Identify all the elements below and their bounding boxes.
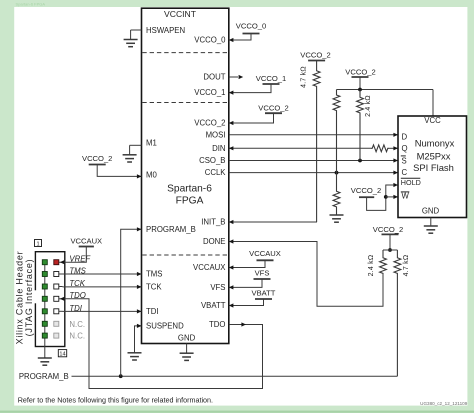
- svg-text:4.7 kΩ: 4.7 kΩ: [403, 255, 410, 277]
- wire CCLK to flash C: [229, 172, 398, 174]
- power VCCO_2 INIT_B label: [300, 51, 330, 60]
- resistor R CCLK upper termination: [333, 90, 340, 173]
- svg-text:VCCO_2: VCCO_2: [373, 225, 403, 234]
- FPGA pin label VCCO_0: [194, 36, 226, 45]
- svg-text:VFS: VFS: [210, 283, 225, 292]
- svg-text:VCCAUX: VCCAUX: [249, 249, 281, 258]
- power VBATT label: [252, 289, 276, 298]
- resistor R 4.7k INIT_B pullup: [313, 61, 320, 223]
- JTAG ground pin 11: [42, 321, 47, 326]
- junction W tie: [384, 195, 388, 199]
- JTAG TCK pin: [54, 284, 63, 289]
- label VREF: [69, 255, 91, 264]
- wire TDO return to header: [63, 299, 263, 389]
- arrow into VCCAUX: [229, 265, 234, 269]
- svg-text:GND: GND: [422, 207, 440, 216]
- power VCCO_0 label: [236, 22, 266, 31]
- svg-text:S: S: [402, 156, 407, 165]
- svg-text:Spartan-6: Spartan-6: [167, 184, 212, 195]
- label 2.4 kOhm DONE: [368, 255, 375, 277]
- power VCCAUX at header label: [70, 237, 102, 246]
- FPGA pin label CSO_B: [199, 156, 225, 165]
- svg-text:VFS: VFS: [255, 269, 270, 278]
- FPGA pin label TCK: [146, 283, 162, 292]
- svg-text:CSO_B: CSO_B: [199, 156, 225, 165]
- wire VREF to VCCAUX: [59, 247, 87, 263]
- power VCCO_0 bar: [243, 33, 260, 35]
- power VCCAUX at header bar: [79, 246, 94, 248]
- svg-text:VCCO_0: VCCO_0: [236, 22, 266, 31]
- FPGA pin label DOUT: [203, 73, 225, 82]
- svg-text:VCCINT: VCCINT: [164, 9, 197, 19]
- power VCCO_2 at M0 label: [82, 154, 112, 163]
- flash label GND: [422, 207, 440, 216]
- junction on PROGRAM_B: [119, 374, 123, 378]
- resistor R 2.4k CSO_B pullup: [357, 90, 364, 161]
- power VCCO_2 DONE bar: [382, 233, 399, 235]
- power VFS bar: [254, 278, 271, 280]
- label 4.7 kOhm INIT_B: [301, 66, 308, 88]
- resistor R CCLK lower termination: [333, 173, 340, 215]
- label TCK: [69, 279, 85, 288]
- power VCCO_2 HOLD bar: [359, 196, 374, 198]
- svg-text:VCCO_2: VCCO_2: [300, 51, 330, 60]
- svg-text:Numonyx: Numonyx: [415, 138, 455, 149]
- FPGA pin label MOSI: [206, 130, 226, 139]
- FPGA pin label VBATT: [201, 301, 226, 310]
- figure id UG380_c2_12_121109: [420, 401, 468, 406]
- svg-text:VCCO_0: VCCO_0: [194, 36, 226, 45]
- FPGA pin label TDO: [209, 320, 225, 329]
- wire HSWAPEN: [131, 29, 142, 31]
- wire to W pin: [386, 196, 398, 198]
- flash pin label HOLD with overline: [401, 178, 421, 187]
- JTAG ground bus wire: [44, 262, 46, 358]
- arrow into VBATT: [229, 303, 234, 307]
- arrow out of DOUT: [239, 75, 244, 79]
- ground below JTAG header: [38, 357, 52, 365]
- wire VCCO_1: [229, 84, 271, 93]
- FPGA name Spartan-6: [167, 184, 212, 195]
- wire pullup rail arms: [383, 249, 397, 251]
- JTAG pin14 number box: [58, 350, 66, 358]
- wire VCCAUX pin: [229, 260, 265, 267]
- FPGA pin label DONE: [203, 237, 226, 246]
- JTAG ground pin 1: [42, 260, 47, 265]
- wire DONE: [229, 242, 383, 307]
- arrow into VCCO_1: [229, 91, 234, 95]
- JTAG VREF pin (red): [54, 260, 59, 265]
- wire M0 from VCCO_2: [97, 165, 141, 177]
- flash pin label C: [402, 168, 408, 177]
- svg-text:HSWAPEN: HSWAPEN: [146, 26, 185, 35]
- arrow into flash HOLD: [393, 183, 398, 187]
- flash pin label S with overline: [401, 156, 407, 165]
- junction DONE pullup rail: [388, 248, 392, 252]
- wire VBATT pin: [229, 299, 264, 306]
- wire VCCO_2 DONE stem: [389, 234, 391, 250]
- svg-text:TDI: TDI: [146, 307, 159, 316]
- FPGA pin label HSWAPEN: [146, 26, 185, 35]
- arrow into FPGA DIN: [229, 146, 234, 150]
- svg-text:D: D: [402, 133, 408, 142]
- FPGA pin label TDI: [146, 307, 159, 316]
- svg-text:TDO: TDO: [209, 320, 225, 329]
- FPGA pin label INIT_B: [201, 218, 225, 227]
- arrow into FPGA TMS: [137, 272, 142, 276]
- svg-text:VCCAUX: VCCAUX: [193, 263, 226, 272]
- arrow into flash D: [393, 133, 398, 137]
- svg-text:M1: M1: [146, 138, 157, 147]
- arrow into flash S: [393, 158, 398, 162]
- svg-text:Refer to the Notes following t: Refer to the Notes following this figure…: [18, 395, 213, 404]
- svg-text:4.7 kΩ: 4.7 kΩ: [301, 66, 308, 88]
- flash pin label Q: [402, 144, 408, 153]
- footer note text: [18, 395, 213, 404]
- FPGA name FPGA: [176, 196, 204, 207]
- svg-text:M25Pxx: M25Pxx: [417, 151, 451, 162]
- JTAG rotated label: [15, 251, 34, 345]
- JTAG connector outline: [34, 252, 65, 347]
- svg-text:M0: M0: [146, 171, 157, 180]
- power VBATT bar: [255, 298, 272, 300]
- label TDO: [69, 291, 85, 300]
- svg-text:VCCO_1: VCCO_1: [256, 74, 286, 83]
- ground at flash GND: [424, 218, 438, 234]
- power VCCAUX right bar: [257, 259, 274, 261]
- arrow into header TDO pin: [60, 297, 65, 301]
- arrow into PROGRAM_B pin: [137, 227, 142, 231]
- JTAG ground pin 9: [42, 309, 47, 314]
- svg-text:VCCO_1: VCCO_1: [194, 88, 225, 97]
- power VCCO_2 HOLD label: [351, 186, 381, 195]
- svg-text:Q: Q: [402, 144, 408, 153]
- svg-text:VCC: VCC: [424, 116, 441, 125]
- FPGA block Spartan-6 outline: [142, 8, 229, 343]
- svg-text:SUSPEND: SUSPEND: [146, 322, 184, 331]
- junction CSO_B pullup: [358, 159, 362, 163]
- FPGA pin label VFS: [210, 283, 225, 292]
- ground at M1: [123, 145, 137, 162]
- wire INIT_B: [229, 221, 317, 223]
- power VCCO_2 INIT_B bar: [308, 60, 325, 62]
- power VCCO_2 right of FPGA bar: [265, 112, 282, 114]
- label TDI: [69, 304, 82, 313]
- wire MOSI to flash D: [229, 134, 398, 136]
- svg-text:VCCO_2: VCCO_2: [82, 154, 112, 163]
- SPI flash outline: [398, 116, 467, 218]
- FPGA GND stem and ground: [180, 344, 194, 361]
- wire TMS: [63, 273, 142, 275]
- arrow into SUSPEND: [137, 324, 142, 328]
- svg-text:W: W: [402, 191, 410, 200]
- arrow into FPGA TCK: [137, 285, 142, 289]
- arrow into VFS: [229, 285, 234, 289]
- label PROGRAM_B: [19, 372, 69, 381]
- svg-text:UG380_c2_12_121109: UG380_c2_12_121109: [420, 401, 468, 406]
- FPGA pin label GND: [178, 334, 196, 343]
- FPGA pin label VCCO_1: [194, 88, 225, 97]
- svg-text:2.4 kΩ: 2.4 kΩ: [368, 255, 375, 277]
- svg-text:TCK: TCK: [146, 283, 162, 292]
- svg-text:1: 1: [36, 241, 39, 247]
- svg-text:INIT_B: INIT_B: [201, 218, 225, 227]
- wire VCCO_2 rail stem: [359, 77, 361, 90]
- svg-text:SPI Flash: SPI Flash: [413, 162, 454, 173]
- ground at CCLK termination: [330, 215, 344, 223]
- FPGA pin label TMS: [146, 270, 162, 279]
- svg-text:MOSI: MOSI: [206, 130, 226, 139]
- svg-text:CCLK: CCLK: [205, 168, 227, 177]
- wire DOUT: [229, 76, 238, 78]
- flash pin label D: [402, 133, 408, 142]
- svg-text:PROGRAM_B: PROGRAM_B: [19, 372, 69, 381]
- FPGA bank separator dashed line 1: [142, 52, 228, 54]
- wire resistor to flash Q: [389, 147, 398, 149]
- resistor R 2.4k DONE pullup: [380, 250, 387, 274]
- FPGA pin label M1: [146, 138, 157, 147]
- svg-text:Xilinx Cable Header(JTAG Inter: Xilinx Cable Header(JTAG Interface): [15, 251, 34, 345]
- FPGA pin label VCCO_2: [194, 119, 225, 128]
- svg-text:VCCAUX: VCCAUX: [70, 237, 102, 246]
- wire DIN from flash Q: [229, 147, 371, 149]
- power VCCO_1 bar: [263, 83, 280, 85]
- flash pin label W with overline: [401, 191, 410, 200]
- arrow into VCCO_2: [229, 121, 234, 125]
- arrow into flash Q: [393, 146, 398, 150]
- FPGA bank separator dashed line 3: [142, 254, 228, 256]
- arrow into INIT_B: [229, 220, 234, 224]
- svg-text:VBATT: VBATT: [201, 301, 226, 310]
- label N.C. pin12: [69, 320, 85, 329]
- flash name M25Pxx: [417, 151, 451, 162]
- power VCCO_1 label: [256, 74, 286, 83]
- wire M1: [130, 144, 142, 146]
- FPGA pin label VCCAUX: [193, 263, 226, 272]
- JTAG TDI pin: [54, 309, 63, 314]
- arrow into VCCO_0: [229, 38, 234, 42]
- JTAG TDO pin: [54, 296, 63, 301]
- wire PROGRAM_B vertical to FPGA: [121, 229, 142, 376]
- FPGA bank separator dashed line 2: [142, 102, 228, 104]
- wire SUSPEND: [135, 326, 142, 353]
- wire VCCO_0: [229, 34, 251, 41]
- svg-text:DONE: DONE: [203, 237, 226, 246]
- FPGA pin label CCLK: [205, 168, 227, 177]
- ground at HSWAPEN: [124, 30, 138, 47]
- arrow on FPGA TDO wire: [241, 322, 246, 326]
- svg-text:DIN: DIN: [212, 144, 225, 153]
- flash label VCC: [424, 116, 441, 125]
- power VCCO_2 DONE label: [373, 225, 403, 234]
- resistor series on Q line: [371, 145, 389, 152]
- wire VCCO_2 rail horizontal: [337, 89, 434, 91]
- flash name SPI Flash: [413, 162, 454, 173]
- junction VCCO_2 rail: [358, 88, 362, 92]
- svg-text:C: C: [402, 168, 408, 177]
- arrow into FPGA TDI: [137, 309, 142, 313]
- svg-text:N.C.: N.C.: [69, 320, 85, 329]
- svg-text:14: 14: [59, 352, 65, 358]
- arrow into DONE: [229, 239, 234, 243]
- svg-text:VCCO_2: VCCO_2: [345, 67, 375, 76]
- arrow into M0: [137, 174, 142, 178]
- label N.C. pin14: [69, 332, 85, 341]
- ground at SUSPEND: [128, 353, 142, 361]
- wire VCCO_2 pin: [229, 113, 274, 123]
- svg-text:VCCO_2: VCCO_2: [258, 103, 288, 112]
- wire VCCO_2 to W and HOLD: [367, 185, 398, 210]
- arrow into flash W: [393, 195, 398, 199]
- FPGA pin label SUSPEND: [146, 322, 184, 331]
- JTAG ground pin 7: [42, 296, 47, 301]
- JTAG N.C. pin 7: [54, 333, 59, 338]
- svg-text:N.C.: N.C.: [69, 332, 85, 341]
- arrow into VREF pin: [60, 260, 65, 264]
- label TMS: [69, 266, 86, 275]
- svg-text:PROGRAM_B: PROGRAM_B: [146, 225, 196, 234]
- power VCCO_2 at M0 bar: [89, 164, 106, 166]
- JTAG ground pin 3: [42, 272, 47, 277]
- junction CCLK term: [335, 171, 339, 175]
- FPGA label VCCINT: [164, 9, 197, 19]
- resistor R 4.7k PROGRAM_B pullup: [394, 250, 401, 376]
- power VCCAUX right label: [249, 249, 281, 258]
- wire flash VCC drop: [432, 90, 434, 117]
- power VCCO_2 right of FPGA label: [258, 103, 288, 112]
- power VFS label: [255, 269, 270, 278]
- power VCCO_2 flash rail bar: [352, 76, 369, 78]
- svg-text:DOUT: DOUT: [203, 73, 225, 82]
- power VCCO_2 flash rail label: [345, 67, 375, 76]
- JTAG ground pin 13: [42, 333, 47, 338]
- svg-text:VCCO_2: VCCO_2: [351, 186, 381, 195]
- wire TCK: [63, 286, 142, 288]
- JTAG ground pin 5: [42, 284, 47, 289]
- svg-text:2.4 kΩ: 2.4 kΩ: [365, 95, 372, 117]
- wire CSO_B to flash S: [229, 160, 398, 162]
- JTAG TMS pin: [54, 272, 63, 277]
- svg-text:HOLD: HOLD: [401, 178, 421, 187]
- wire PROGRAM_B horizontal: [72, 375, 398, 377]
- wire TDI: [63, 310, 142, 312]
- label 2.4 kOhm CSO_B: [365, 95, 372, 117]
- FPGA pin label M0: [146, 171, 157, 180]
- JTAG N.C. pin 6: [54, 321, 59, 326]
- flash name Numonyx: [415, 138, 455, 149]
- FPGA pin label DIN: [212, 144, 225, 153]
- label 4.7 kOhm PROGRAM_B: [403, 255, 410, 277]
- svg-text:GND: GND: [178, 334, 196, 343]
- svg-text:Spartan-6 FPGA: Spartan-6 FPGA: [16, 1, 46, 6]
- svg-text:VCCO_2: VCCO_2: [194, 119, 225, 128]
- arrow into flash C: [393, 171, 398, 175]
- JTAG pin1 number box: [35, 240, 42, 248]
- wire VFS pin: [229, 279, 262, 287]
- svg-text:VBATT: VBATT: [252, 289, 276, 298]
- svg-text:FPGA: FPGA: [176, 196, 204, 207]
- FPGA pin label PROGRAM_B: [146, 225, 196, 234]
- svg-text:TMS: TMS: [146, 270, 162, 279]
